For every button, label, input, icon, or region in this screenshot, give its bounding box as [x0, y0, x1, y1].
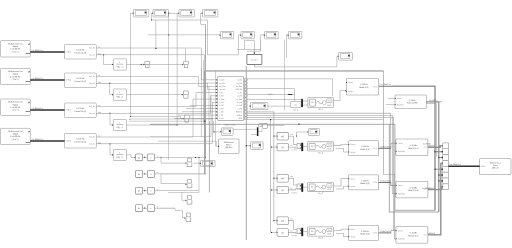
svg-text:seq_Re: seq_Re: [219, 80, 224, 82]
svg-text:pr(f): pr(f): [281, 220, 285, 223]
svg-text:Osc_4: Osc_4: [293, 110, 298, 112]
svg-text:InfoSyn: InfoSyn: [348, 91, 353, 93]
svg-text:Decim 0.4 (0): Decim 0.4 (0): [75, 52, 87, 54]
svg-text:Decim 0.4 (0): Decim 0.4 (0): [75, 81, 87, 83]
svg-text:OUT#z: OUT#z: [373, 233, 378, 235]
svg-text:z: z: [151, 191, 152, 193]
svg-text:105: 105: [311, 146, 314, 148]
svg-text:InfoSyn: InfoSyn: [351, 186, 356, 188]
svg-text:seq_fwd: seq_fwd: [219, 89, 225, 91]
svg-text:Osc_2: Osc_2: [318, 193, 323, 195]
svg-text:Bwdth 4 (3): Bwdth 4 (3): [360, 86, 369, 89]
svg-text:sFsNew: sFsNew: [237, 115, 243, 117]
svg-text:os_Rem: os_Rem: [236, 99, 242, 101]
svg-text:Decim 0.4 (0): Decim 0.4 (0): [75, 111, 87, 113]
svg-text:WrBuf: WrBuf: [482, 166, 486, 168]
svg-text:Reason: Reason: [348, 82, 353, 84]
svg-text:z: z: [151, 174, 152, 176]
svg-text:4 ch 48k Hz: 4 ch 48k Hz: [10, 49, 20, 51]
svg-text:zero: zero: [290, 134, 293, 136]
svg-text:(48k ch): (48k ch): [492, 168, 499, 170]
svg-text:In/Reg: In/Reg: [66, 52, 71, 54]
svg-text:Signal: Signal: [13, 104, 19, 106]
svg-text:(48k 8ch): (48k 8ch): [225, 147, 232, 149]
svg-text:Bwdth 4 (3): Bwdth 4 (3): [361, 232, 370, 235]
svg-text:os_Re: os_Re: [238, 92, 243, 94]
svg-text:os_Ref: os_Ref: [237, 96, 242, 98]
svg-text:in_fwd: in_fwd: [219, 102, 224, 104]
svg-text:OscFreq: OscFreq: [292, 235, 298, 237]
svg-text:4 ch 48k Hz: 4 ch 48k Hz: [10, 107, 20, 109]
svg-text:Mode Control: Mode Control: [225, 123, 236, 126]
svg-text:PageFolder: PageFolder: [398, 193, 406, 195]
svg-text:OUT#z: OUT#z: [373, 182, 378, 184]
svg-text:Multichannel Out: Multichannel Out: [8, 130, 23, 133]
svg-text:os_fwd: os_fwd: [237, 102, 242, 104]
svg-text:in_fwd: in_fwd: [219, 118, 224, 120]
svg-text:Multi (0.1) ch: Multi (0.1) ch: [408, 147, 418, 150]
svg-text:sCH2: sCH2: [238, 108, 242, 110]
svg-text:1: 1: [119, 92, 120, 94]
svg-text:OUT#z: OUT#z: [373, 148, 378, 150]
svg-text:Osc_0: Osc_0: [318, 238, 323, 240]
svg-text:PLL_1: PLL_1: [318, 109, 323, 111]
svg-text:InfoSyn: InfoSyn: [351, 152, 356, 154]
svg-text:z: z: [151, 208, 152, 210]
svg-text:4 ch 48k Hz: 4 ch 48k Hz: [10, 136, 20, 138]
svg-text:( 1 to 5 ): ( 1 to 5 ): [12, 109, 19, 112]
svg-text:Signal: Signal: [13, 46, 19, 48]
svg-text:R(1) + 1: R(1) + 1: [117, 97, 124, 99]
svg-text:c_TsF: c_TsF: [219, 115, 223, 117]
svg-text:( 1 to 5 ): ( 1 to 5 ): [12, 50, 19, 53]
svg-text:OUT#z: OUT#z: [373, 86, 378, 88]
svg-text:( 1 to 5 ): ( 1 to 5 ): [12, 138, 19, 141]
svg-text:Reason: Reason: [351, 178, 356, 180]
svg-text:Osc_3: Osc_3: [318, 152, 323, 154]
svg-text:105: 105: [311, 102, 314, 104]
svg-text:s(f): s(f): [281, 147, 284, 149]
svg-text:Out 48kHz/2 ch: Out 48kHz/2 ch: [32, 107, 44, 110]
svg-text:Multi (0.1) ch: Multi (0.1) ch: [408, 234, 418, 237]
svg-text:Bwdth 4 (3): Bwdth 4 (3): [361, 182, 370, 185]
svg-text:SRC=ACS: SRC=ACS: [250, 58, 259, 61]
svg-text:zero: zero: [290, 219, 293, 221]
svg-text:Multichannel Out: Multichannel Out: [8, 42, 23, 45]
svg-text:In/Reg: In/Reg: [66, 141, 71, 143]
svg-text:In/Reg: In/Reg: [66, 80, 71, 82]
svg-text:Bwdth 4 (3): Bwdth 4 (3): [361, 148, 370, 151]
svg-text:Multi (0.1) ch: Multi (0.1) ch: [408, 189, 418, 192]
svg-text:Volume: Volume: [397, 98, 402, 100]
svg-text:1/z: 1/z: [138, 174, 140, 176]
svg-text:Signal: Signal: [13, 74, 19, 76]
svg-text:Select 1k BW: Select 1k BW: [407, 102, 418, 105]
svg-text:pr(f): pr(f): [281, 135, 285, 138]
svg-text:Decim 0.4 (0): Decim 0.4 (0): [75, 141, 87, 143]
svg-text:105: 105: [311, 187, 314, 189]
svg-text:Out 48kHz/2 ch: Out 48kHz/2 ch: [32, 49, 44, 52]
svg-text:( 1 to 5 ): ( 1 to 5 ): [12, 78, 19, 81]
svg-text:R(1) + 1: R(1) + 1: [117, 127, 124, 129]
svg-text:InfoSyn: InfoSyn: [351, 236, 356, 238]
svg-text:1/z: 1/z: [138, 191, 140, 193]
svg-text:Multichannel Out: Multichannel Out: [8, 101, 23, 104]
svg-text:in_Re: in_Re: [219, 92, 223, 94]
svg-text:vco: vco: [294, 105, 297, 107]
svg-text:105: 105: [311, 231, 314, 233]
svg-text:z: z: [151, 157, 152, 159]
svg-text:1/z: 1/z: [138, 157, 140, 159]
svg-text:s(f): s(f): [281, 190, 284, 192]
svg-text:1: 1: [119, 62, 120, 64]
svg-text:Reason: Reason: [351, 229, 356, 231]
svg-text:OscFreq: OscFreq: [292, 192, 298, 194]
svg-text:Signal: Signal: [13, 134, 19, 136]
svg-text:s(f): s(f): [281, 232, 284, 234]
svg-text:Reason: Reason: [351, 144, 356, 146]
svg-text:Out 48kHz/8 ch: Out 48kHz/8 ch: [449, 163, 461, 166]
svg-text:1: 1: [119, 122, 120, 124]
svg-text:zero: zero: [290, 176, 293, 178]
svg-text:1/z: 1/z: [138, 208, 140, 210]
svg-text:In/Reg: In/Reg: [66, 110, 71, 112]
svg-text:Multichannel Out: Multichannel Out: [8, 70, 23, 73]
svg-text:PageFolder: PageFolder: [398, 151, 406, 153]
svg-text:in_Rem: in_Rem: [219, 99, 225, 101]
svg-text:in_Ref: in_Ref: [219, 96, 224, 98]
svg-text:seq_Ref: seq_Ref: [219, 83, 225, 85]
svg-text:R(1) + 1: R(1) + 1: [117, 157, 124, 159]
svg-text:pr(f): pr(f): [281, 177, 285, 180]
svg-text:1: 1: [119, 152, 120, 154]
svg-text:Out 48kHz/2 ch: Out 48kHz/2 ch: [32, 138, 44, 141]
svg-text:R(1) + 1: R(1) + 1: [117, 67, 124, 69]
svg-text:OscFreq: OscFreq: [292, 150, 298, 152]
svg-text:Out 48kHz/2 ch: Out 48kHz/2 ch: [32, 77, 44, 80]
svg-text:in_TsF: in_TsF: [219, 108, 224, 110]
svg-text:PageFolder: PageFolder: [398, 239, 406, 241]
svg-text:seq_Rem: seq_Rem: [219, 86, 226, 88]
svg-text:4 ch 48k Hz: 4 ch 48k Hz: [10, 76, 20, 78]
